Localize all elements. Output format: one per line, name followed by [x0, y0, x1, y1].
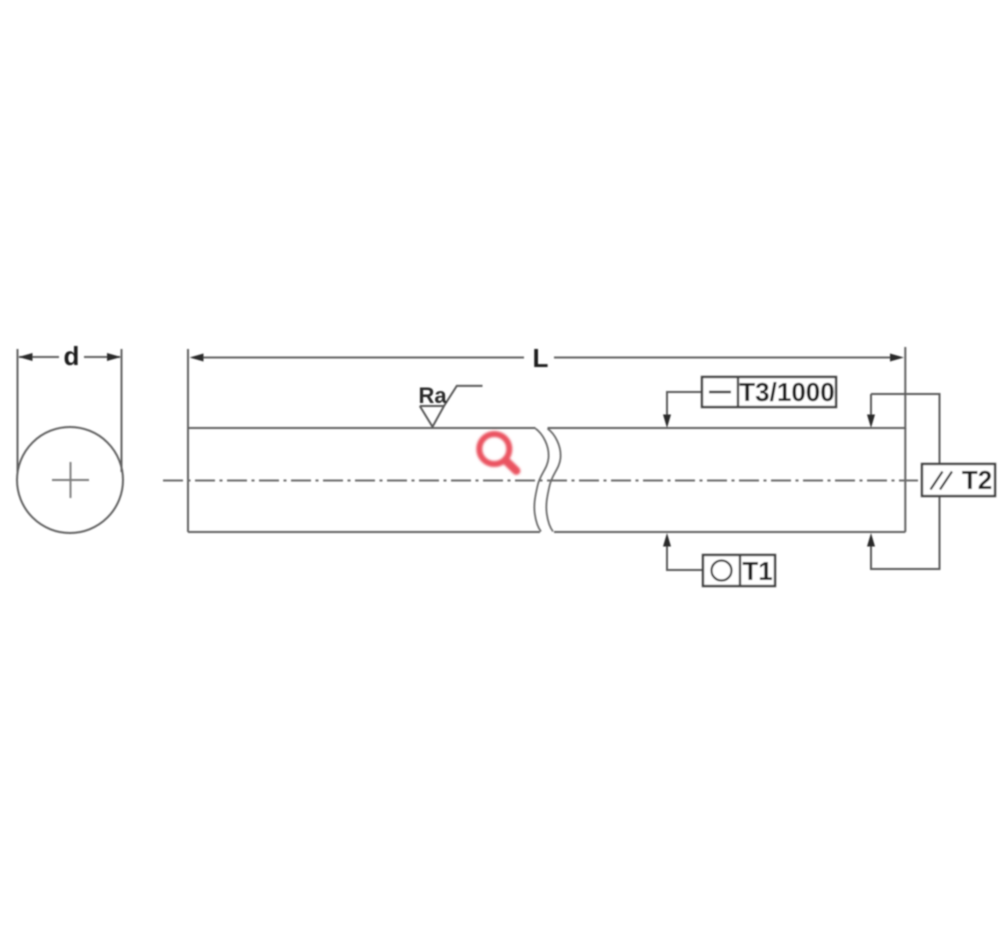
T1 leader arrow (up, at rod bottom) — [663, 533, 671, 547]
surface finish symbol triangle — [420, 386, 483, 427]
straightness symbol — [709, 391, 731, 394]
break line right S-curve — [546, 429, 560, 532]
dimension L right extension (rod right edge extended) — [904, 347, 906, 429]
T2 top connector — [871, 394, 940, 464]
dimension L arrow right — [890, 354, 904, 362]
rod top edge left part — [188, 427, 536, 429]
rod bottom edge right part — [554, 531, 905, 533]
dimension L line right segment — [554, 357, 893, 359]
svg-text:Ra: Ra — [419, 383, 448, 408]
svg-text:T2: T2 — [962, 465, 992, 495]
dimension L left extension (rod left edge extended) — [187, 349, 189, 429]
break line left S-curve — [534, 429, 548, 532]
T1 feature control frame leader — [667, 545, 703, 570]
end-view circle of rod — [17, 427, 123, 533]
rod left edge — [187, 428, 189, 532]
svg-text:T3/1000: T3/1000 — [739, 377, 834, 407]
T2 top arrow (down, at rod top) — [867, 415, 875, 429]
T3/1000 feature control frame box — [702, 377, 836, 407]
T2 bottom connector — [871, 496, 940, 569]
svg-text:T1: T1 — [742, 556, 772, 586]
dimension d arrow right — [107, 353, 121, 361]
T1 feature control frame box — [703, 555, 775, 586]
center mark crosshair — [52, 462, 89, 498]
svg-text:L: L — [533, 343, 549, 373]
rod right edge — [904, 428, 906, 532]
T2 bottom arrow (up, at rod bottom) — [867, 533, 875, 547]
circularity symbol — [712, 561, 732, 581]
T2 feature control frame box — [922, 464, 995, 496]
svg-text:d: d — [64, 341, 80, 371]
parallelism symbol — [931, 472, 953, 490]
T3 leader arrow (down, at rod top) — [663, 415, 671, 429]
rod top edge right part — [548, 427, 906, 429]
dimension d extension line right — [121, 349, 123, 472]
dimension d arrow left — [19, 353, 33, 361]
T2 top leader vertical — [870, 394, 872, 416]
T3/1000 feature control frame leader — [667, 392, 702, 416]
dimension L arrow left — [190, 354, 204, 362]
centerline (dash-dot axis) — [163, 480, 918, 482]
dimension d line right segment — [84, 356, 120, 358]
dimension d line left segment — [19, 356, 59, 358]
dimension L line left segment — [200, 357, 524, 359]
red magnifier icon — [479, 434, 516, 471]
dimension d extension line left — [17, 349, 19, 472]
rod bottom edge left part — [188, 531, 540, 533]
